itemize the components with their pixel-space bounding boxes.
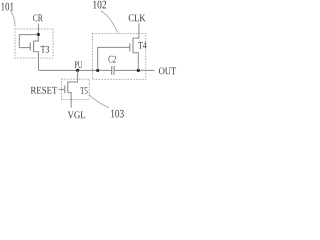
net label PU [74,61,82,68]
net label VGL [68,111,85,118]
junction node dot (CR / T3 gate) [37,33,40,36]
wire RESET to T5 gate [59,88,65,90]
transistor T5 gate bar [64,85,66,93]
leader line for 101 [10,10,15,27]
wire PU node up and over to T4 gate [98,47,130,70]
dashed box 102 (output unit) [92,33,145,79]
transistor T3 gate bar [29,43,31,51]
label 103 [111,110,124,118]
leader line for 102 [100,11,117,33]
junction node dot PU / T4 gate [96,69,99,72]
junction node dot OUT / T4 source [137,69,140,72]
net label CLK [129,14,146,21]
transistor T3 channel bar [33,41,35,52]
transistor label T4 [138,42,146,49]
wire T3 source down to PU rail [34,52,39,71]
transistor label T3 [41,46,49,53]
net label RESET [31,87,58,94]
wire CR input down to T3 drain [34,24,39,42]
wire T5 source down to VGL [68,93,71,108]
junction node dot PU / T5 drain [76,69,79,72]
label 102 [93,1,106,9]
capacitor C2 left plate [111,66,113,75]
net label CR [33,14,43,21]
wire OUT rail (right of C2) [114,69,154,71]
dashed box 103 (reset unit) [62,79,90,99]
transistor T4 channel bar [132,38,134,53]
capacitor label C2 [108,56,115,63]
label 101 [1,3,13,11]
wire T3 gate loop to drain node (diode connection) [19,35,37,48]
transistor T5 channel bar [67,82,69,93]
transistor label T5 [80,87,87,94]
wire PU rail (left of C2) [39,69,112,71]
dashed box 101 (input unit) [15,29,53,58]
wire T4 source down to OUT rail [133,53,138,71]
net label OUT [159,67,176,74]
capacitor C2 right plate [113,66,115,75]
wire CLK down to T4 drain [133,23,139,38]
leader line for 103 [89,94,109,107]
transistor T4 gate bar [129,43,131,51]
wire T5 drain up to PU node [68,70,78,82]
